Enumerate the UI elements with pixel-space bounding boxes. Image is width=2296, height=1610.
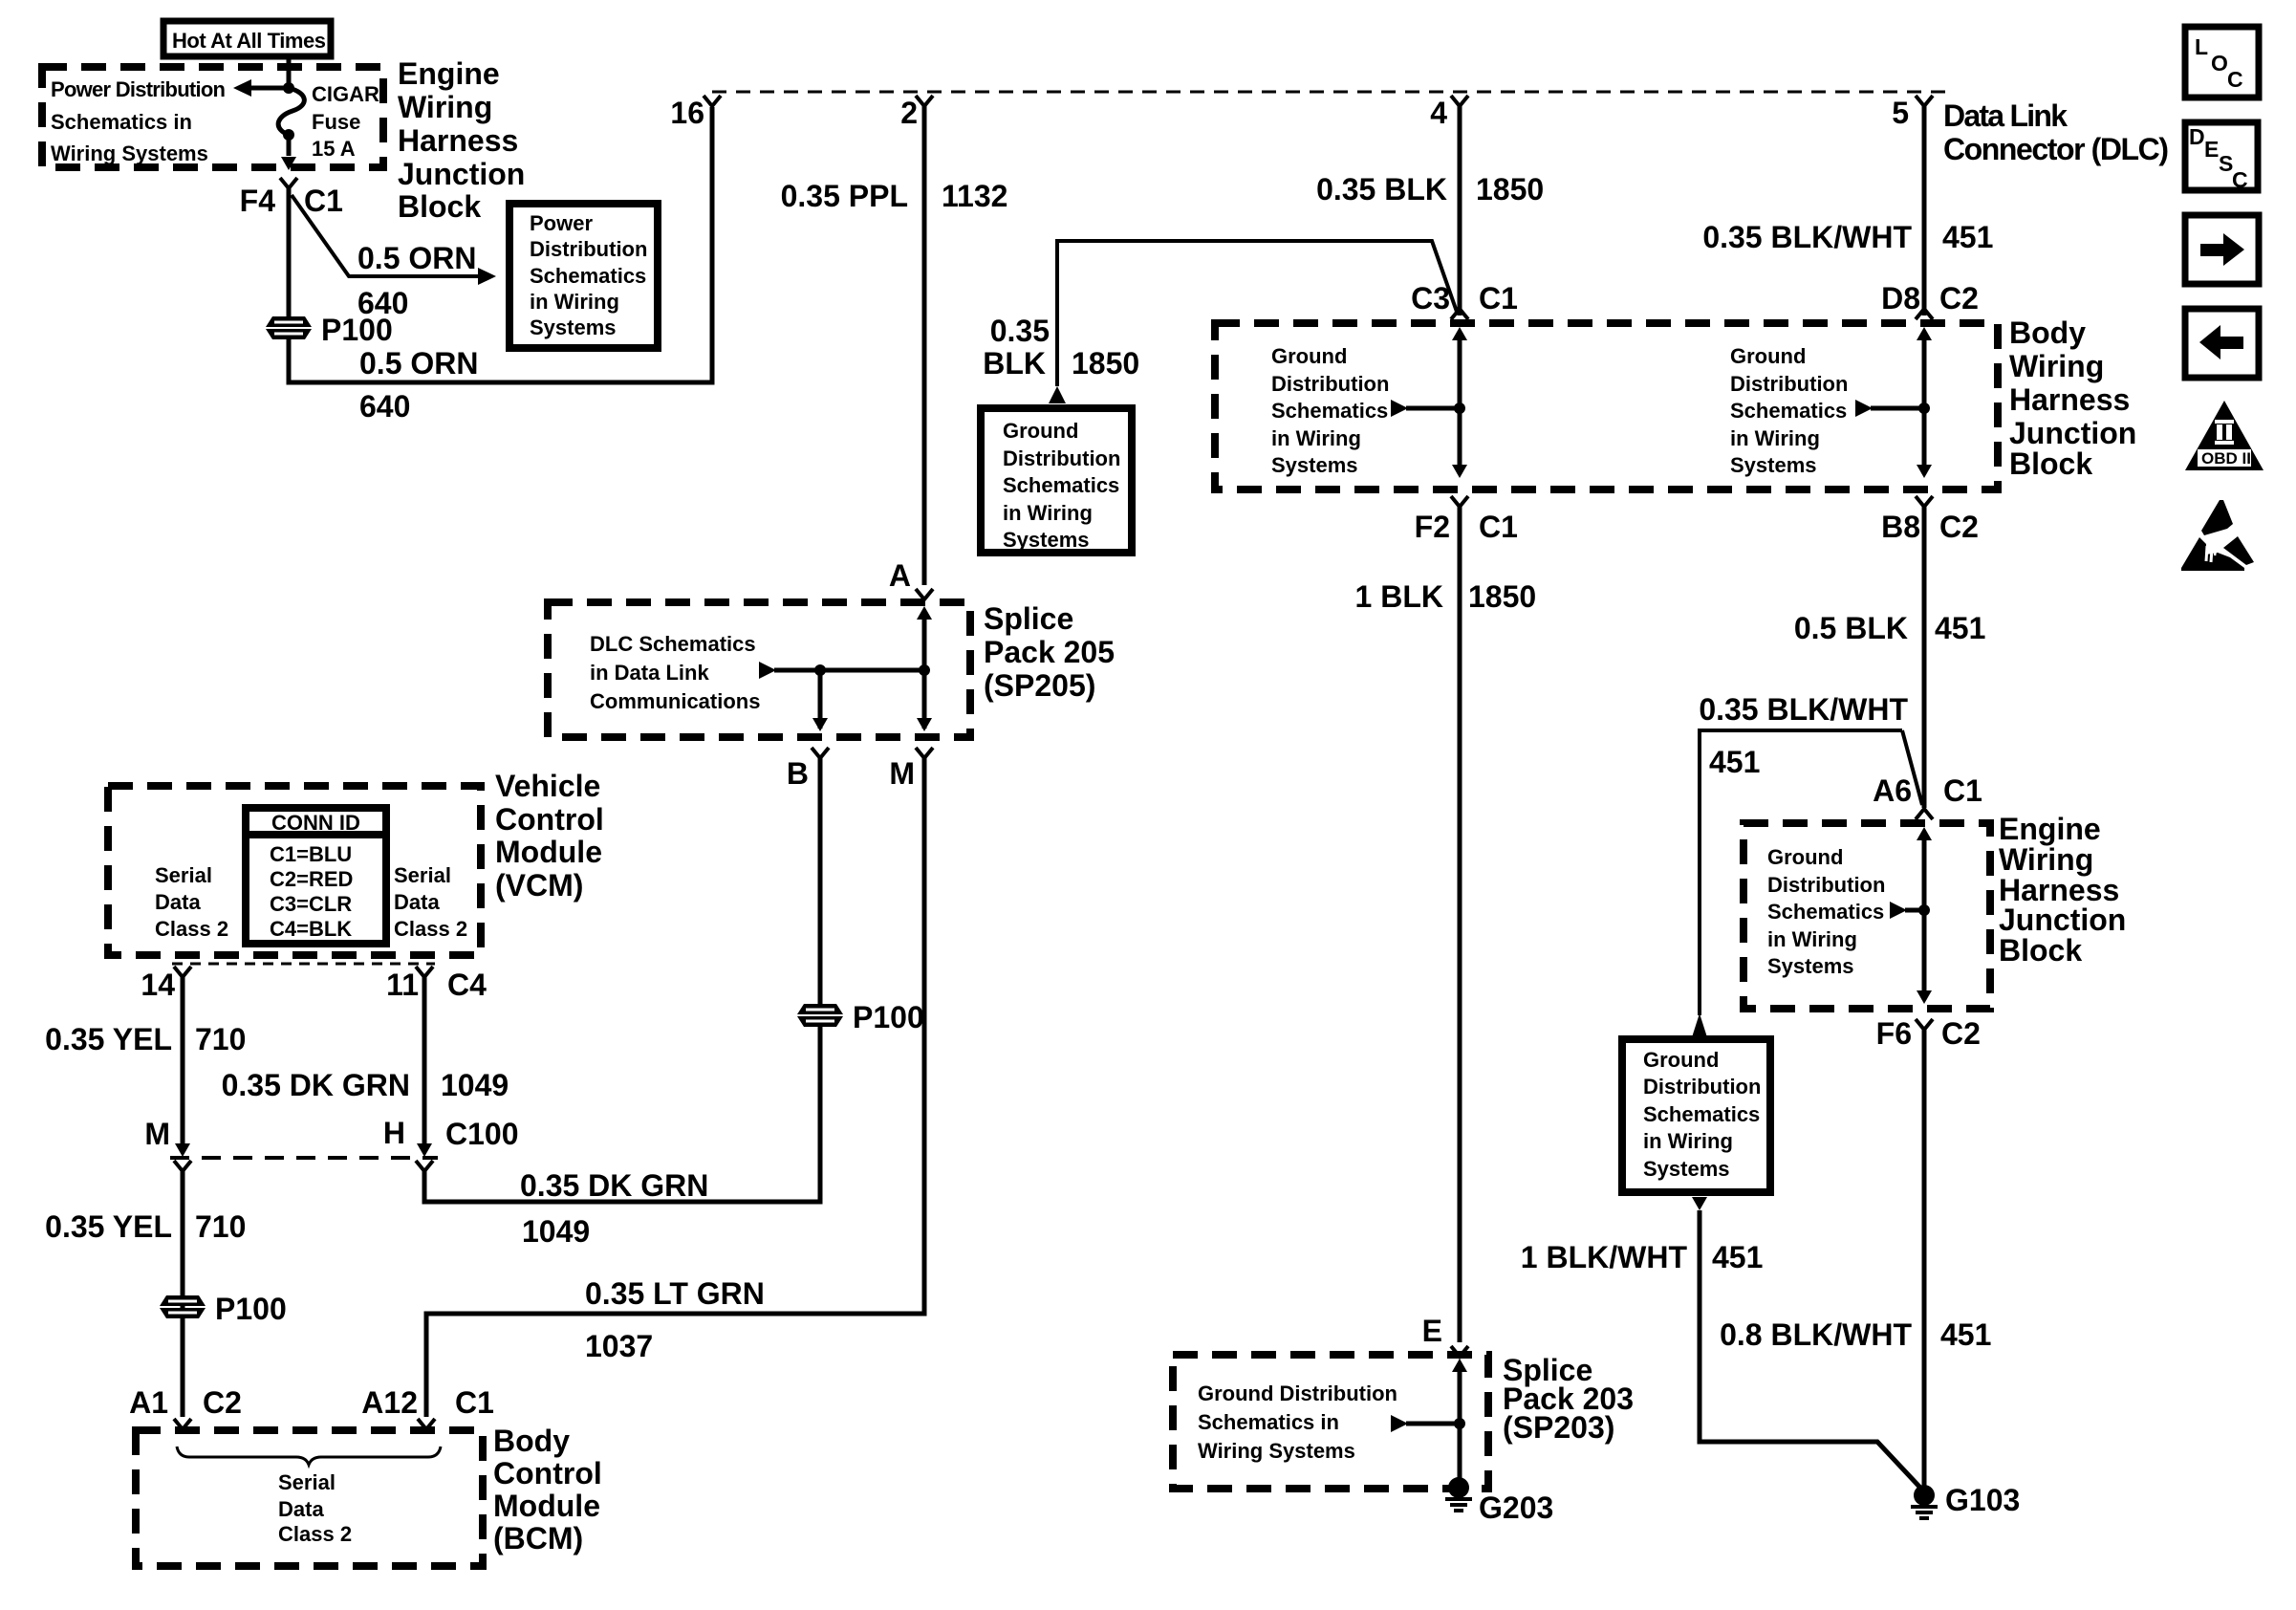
wire from Hot box to fuse: [287, 56, 292, 88]
svg-text:Data: Data: [394, 890, 440, 914]
svg-text:Vehicle: Vehicle: [495, 769, 600, 803]
svg-text:1850: 1850: [1072, 346, 1139, 381]
svg-text:Systems: Systems: [1003, 528, 1090, 552]
svg-text:451: 451: [1709, 745, 1760, 779]
svg-text:Wiring: Wiring: [1999, 842, 2093, 877]
svg-text:Serial: Serial: [394, 863, 451, 887]
svg-text:Splice: Splice: [984, 601, 1073, 636]
label Ground Distribution Schematics in Wiring Systems (engine box): [1767, 845, 1885, 978]
label 0.35 DK GRN 1049 (lower): [520, 1168, 708, 1249]
dashed box Vehicle Control Module: [108, 786, 481, 955]
wire 0.35 BLK/WHT 451 pin 5 down to D8: [1922, 106, 1927, 315]
wire 0.35 PPL 1132 from pin 2 to SP205 A: [922, 106, 927, 585]
connector P100 (middle, on B wire): [797, 1000, 924, 1034]
svg-text:M: M: [144, 1117, 170, 1151]
box Hot At All Times: [163, 21, 331, 56]
svg-text:C2=RED: C2=RED: [270, 867, 353, 891]
wire reference arrow SP203: [1391, 1415, 1465, 1432]
svg-text:Data: Data: [155, 890, 201, 914]
label Splice Pack 203 (SP203): [1503, 1353, 1634, 1445]
svg-text:Harness: Harness: [2009, 382, 2130, 417]
connector tick D8 C2: [1881, 281, 1979, 319]
svg-text:Distribution: Distribution: [1003, 446, 1120, 470]
svg-text:Serial: Serial: [155, 863, 212, 887]
svg-text:Distribution: Distribution: [1271, 372, 1389, 396]
svg-text:Distribution: Distribution: [530, 237, 647, 261]
svg-text:Class 2: Class 2: [394, 917, 467, 941]
icon back arrow box: [2185, 309, 2259, 378]
svg-text:Ground: Ground: [1271, 344, 1347, 368]
svg-text:C100: C100: [445, 1117, 519, 1151]
label Serial Data Class 2 (right): [394, 863, 467, 941]
wire arrow to power distribution (left): [233, 79, 289, 97]
wire reference arrow engine box: [1890, 902, 1930, 919]
connector tick F2 C1: [1415, 496, 1518, 544]
connector tick A1 C2 at BCM: [129, 1385, 242, 1429]
icon LOC box: [2185, 27, 2259, 98]
svg-text:14: 14: [141, 968, 175, 1002]
dashed box Engine Wiring Harness Junction Block (right): [1744, 823, 1990, 1009]
label 0.5 BLK 451: [1794, 611, 1986, 645]
ground G103: [1911, 1483, 2020, 1518]
svg-text:451: 451: [1712, 1240, 1763, 1274]
wire B leg from P100 down to DK GRN corner: [425, 1027, 820, 1202]
wire diagonal branch 0.5 ORN to power distribution box: [292, 195, 496, 285]
svg-text:Pack 205: Pack 205: [984, 635, 1115, 669]
svg-text:0.5 BLK: 0.5 BLK: [1794, 611, 1908, 645]
connector tick A6 C1: [1873, 773, 1982, 819]
wire 0.35 DK GRN 1049 from C100 right to SP205 B leg: [424, 1171, 820, 1202]
label Serial Data Class 2 (BCM): [278, 1470, 352, 1546]
svg-text:451: 451: [1935, 611, 1985, 645]
label Body Wiring Harness Junction Block: [2009, 315, 2136, 481]
svg-text:Schematics: Schematics: [1003, 473, 1119, 497]
svg-text:CIGAR: CIGAR: [312, 82, 379, 106]
svg-text:C2: C2: [1941, 1016, 1981, 1051]
box Ground Distribution Schematics in Wiring Systems (solid, upper): [981, 408, 1132, 553]
svg-text:Systems: Systems: [530, 315, 617, 339]
svg-text:D: D: [2189, 124, 2205, 149]
svg-text:4: 4: [1430, 96, 1447, 130]
svg-text:Distribution: Distribution: [1730, 372, 1848, 396]
label Ground Distribution Schematics in Wiring Systems (body box, right): [1730, 344, 1848, 477]
svg-text:0.35 LT GRN: 0.35 LT GRN: [585, 1276, 765, 1311]
svg-text:Engine: Engine: [398, 56, 500, 91]
box Ground Distribution Schematics in Wiring Systems (solid, lower): [1622, 1039, 1770, 1192]
brace serial data bus: [177, 1447, 441, 1465]
svg-text:Module: Module: [493, 1489, 600, 1523]
label 0.35 BLK 1850 (pin 4): [1316, 172, 1544, 207]
svg-text:Ground: Ground: [1643, 1048, 1719, 1072]
svg-text:C1: C1: [304, 184, 343, 218]
svg-text:Data: Data: [278, 1497, 324, 1521]
svg-text:Ground: Ground: [1730, 344, 1806, 368]
svg-text:C1: C1: [1479, 281, 1518, 315]
label 0.35 PPL 1132: [781, 179, 1008, 213]
svg-text:Schematics: Schematics: [1767, 900, 1884, 924]
svg-text:0.35 BLK/WHT: 0.35 BLK/WHT: [1702, 220, 1912, 254]
svg-text:710: 710: [195, 1209, 246, 1244]
svg-text:Schematics: Schematics: [1271, 399, 1388, 423]
wire SP205 internal reference line with arrow: [759, 662, 924, 679]
svg-text:C3=CLR: C3=CLR: [270, 892, 352, 916]
icon forward arrow box: [2185, 215, 2259, 284]
node A: [889, 558, 933, 599]
dashed box Power Distribution Schematics in Wiring Systems: [42, 67, 383, 167]
svg-text:CONN ID: CONN ID: [271, 811, 360, 835]
svg-text:0.35 PPL: 0.35 PPL: [781, 179, 908, 213]
svg-text:Wiring: Wiring: [2009, 349, 2104, 383]
wire B leg down to P100: [818, 758, 823, 1004]
connector tick pin 4: [1430, 96, 1468, 130]
svg-text:E: E: [2204, 137, 2219, 162]
svg-text:F6: F6: [1876, 1016, 1912, 1051]
wire body box internal (right leg): [1917, 327, 1932, 478]
label 0.8 BLK/WHT 451: [1720, 1317, 1991, 1352]
label 1 BLK/WHT 451: [1521, 1240, 1764, 1274]
svg-text:710: 710: [195, 1022, 246, 1056]
svg-text:C2: C2: [1939, 281, 1979, 315]
label 0.35 YEL 710 (lower): [45, 1209, 246, 1244]
svg-text:in Wiring: in Wiring: [530, 290, 619, 314]
svg-text:Control: Control: [493, 1456, 602, 1490]
wire fuse down to connector F4: [281, 135, 296, 170]
label 0.5 ORN 640 (lower): [359, 346, 478, 424]
svg-text:Serial: Serial: [278, 1470, 336, 1494]
svg-text:Class 2: Class 2: [155, 917, 228, 941]
wire 0.35 DK GRN 1049 pin 11 down to C100: [417, 977, 432, 1157]
connector tick pin 14: [141, 967, 191, 1002]
label Ground Distribution Schematics in Wiring Systems (body box, left): [1271, 344, 1389, 477]
svg-text:0.35 BLK/WHT: 0.35 BLK/WHT: [1699, 692, 1908, 727]
svg-text:E: E: [1422, 1314, 1442, 1348]
svg-text:1 BLK: 1 BLK: [1355, 579, 1443, 614]
svg-text:Schematics: Schematics: [1730, 399, 1847, 423]
svg-text:C4=BLK: C4=BLK: [270, 917, 352, 941]
svg-text:C1: C1: [455, 1385, 494, 1420]
svg-text:C2: C2: [1939, 510, 1979, 544]
svg-text:Power: Power: [530, 211, 593, 235]
wire reference arrow right: [1855, 400, 1930, 417]
svg-text:Distribution: Distribution: [1767, 873, 1885, 897]
svg-text:B8: B8: [1881, 510, 1920, 544]
svg-text:451: 451: [1940, 1317, 1991, 1352]
wire body box internal (left leg): [1452, 327, 1467, 478]
svg-text:Wiring Systems: Wiring Systems: [1198, 1439, 1355, 1463]
connector tick B8 C2: [1881, 496, 1979, 544]
label Engine Wiring Harness Junction Block (top-left): [398, 56, 525, 224]
svg-text:Block: Block: [1999, 933, 2082, 968]
svg-text:0.35: 0.35: [990, 314, 1050, 348]
svg-text:(VCM): (VCM): [495, 868, 583, 903]
label 0.35 LT GRN 1037: [585, 1276, 765, 1363]
svg-text:Harness: Harness: [398, 123, 518, 158]
svg-text:Body: Body: [2009, 315, 2086, 350]
label 0.35 BLK 1850 (branch): [983, 314, 1139, 381]
wire 0.35 YEL 710 from C100 down through P100 to BCM A1: [181, 1171, 185, 1417]
svg-text:11: 11: [386, 968, 419, 1002]
dashed box Splice Pack 203: [1173, 1355, 1488, 1489]
svg-text:L: L: [2195, 34, 2208, 59]
svg-text:C1: C1: [1479, 510, 1518, 544]
svg-text:Junction: Junction: [2009, 416, 2136, 450]
svg-text:F4: F4: [240, 184, 276, 218]
fuse CIGAR 15 A: [278, 82, 379, 161]
svg-text:Ground Distribution: Ground Distribution: [1198, 1382, 1397, 1405]
svg-text:Fuse: Fuse: [312, 110, 360, 134]
svg-text:OBD II: OBD II: [2201, 449, 2251, 468]
connector P100 (top, on orange wire): [266, 313, 393, 347]
svg-text:Schematics: Schematics: [530, 264, 646, 288]
node junction dot on M leg: [919, 664, 930, 676]
svg-text:in Wiring: in Wiring: [1271, 426, 1361, 450]
svg-text:0.5 ORN: 0.5 ORN: [359, 346, 478, 381]
svg-text:G103: G103: [1945, 1483, 2020, 1517]
wire 0.35 YEL 710 pin 14 down to C100: [175, 977, 190, 1157]
label 0.35 YEL 710 (upper): [45, 1022, 246, 1056]
svg-text:1132: 1132: [942, 179, 1007, 213]
wire arrow into ground box: [1049, 386, 1066, 403]
connector tick pin 16: [670, 96, 721, 130]
connector tick M below SP205: [889, 748, 933, 791]
svg-text:Block: Block: [398, 189, 481, 224]
svg-text:A12: A12: [361, 1385, 418, 1420]
label 0.5 ORN 640 (upper): [357, 241, 476, 320]
dashed box Splice Pack 205: [548, 602, 970, 737]
svg-text:5: 5: [1892, 96, 1909, 130]
svg-text:C3: C3: [1411, 281, 1450, 315]
svg-text:Ground: Ground: [1003, 419, 1078, 443]
label 0.35 DK GRN 1049 (upper): [222, 1068, 509, 1102]
connector tick pin 11 / C4: [386, 967, 487, 1002]
svg-text:DLC Schematics: DLC Schematics: [590, 632, 756, 656]
connector tick pin 5: [1892, 96, 1933, 130]
wire dashed connector C4 line under VCM: [172, 963, 435, 966]
connector tick F6 C2: [1876, 1016, 1981, 1051]
svg-text:Control: Control: [495, 802, 604, 837]
svg-text:0.35 BLK: 0.35 BLK: [1316, 172, 1447, 207]
svg-text:C1=BLU: C1=BLU: [270, 842, 352, 866]
svg-text:(SP205): (SP205): [984, 668, 1095, 703]
svg-text:1049: 1049: [441, 1068, 509, 1102]
svg-text:1037: 1037: [585, 1329, 653, 1363]
svg-text:P100: P100: [215, 1292, 287, 1326]
svg-text:C4: C4: [447, 968, 487, 1002]
svg-text:0.35 DK GRN: 0.35 DK GRN: [222, 1068, 410, 1102]
label Splice Pack 205 (SP205): [984, 601, 1115, 703]
dashed box Body Wiring Harness Junction Block: [1215, 323, 1998, 490]
connector tick H at C100: [383, 1116, 519, 1171]
svg-text:F2: F2: [1415, 510, 1450, 544]
svg-text:in Wiring: in Wiring: [1767, 927, 1857, 951]
label DLC Schematics in Data Link Communications: [590, 632, 760, 713]
svg-text:1 BLK/WHT: 1 BLK/WHT: [1521, 1240, 1688, 1274]
label 0.35 BLK/WHT 451 (pin 5): [1702, 220, 1993, 254]
svg-text:Systems: Systems: [1767, 954, 1854, 978]
wire SP203 internal with arrow: [1452, 1359, 1467, 1480]
svg-text:O: O: [2211, 51, 2228, 76]
label Data Link Connector (DLC): [1943, 98, 2169, 166]
node E: [1422, 1314, 1468, 1357]
svg-text:Systems: Systems: [1643, 1157, 1730, 1181]
svg-text:Schematics in: Schematics in: [51, 110, 192, 134]
wire reference arrow left: [1391, 400, 1465, 417]
svg-text:640: 640: [359, 389, 410, 424]
svg-text:1850: 1850: [1468, 579, 1536, 614]
svg-text:16: 16: [670, 96, 704, 130]
wire branch 0.35 BLK/WHT 451 to ground solid box: [1700, 730, 1902, 1015]
svg-text:A1: A1: [129, 1385, 168, 1420]
svg-text:0.35 DK GRN: 0.35 DK GRN: [520, 1168, 708, 1203]
wire M leg down to LT GRN corner: [426, 758, 924, 1417]
svg-text:M: M: [889, 756, 915, 791]
svg-text:15 A: 15 A: [312, 137, 356, 161]
svg-text:(BCM): (BCM): [493, 1521, 583, 1556]
svg-text:Systems: Systems: [1271, 453, 1358, 477]
wire 0.35 BLK 1850 pin 4 down to C3: [1458, 106, 1462, 315]
svg-text:Body: Body: [493, 1424, 570, 1458]
svg-text:C: C: [2232, 167, 2248, 192]
svg-text:(SP203): (SP203): [1503, 1410, 1614, 1445]
svg-text:Communications: Communications: [590, 689, 760, 713]
svg-text:0.8 BLK/WHT: 0.8 BLK/WHT: [1720, 1317, 1912, 1352]
svg-text:H: H: [383, 1116, 405, 1150]
connector tick pin 2: [900, 96, 933, 130]
svg-text:2: 2: [900, 96, 918, 130]
svg-text:Systems: Systems: [1730, 453, 1817, 477]
label Engine Wiring Harness Junction Block (right): [1999, 812, 2126, 968]
wire SP205 internal arrow up (M leg): [917, 606, 932, 731]
connector P100 (left, on yellow wire): [160, 1292, 287, 1326]
label Body Control Module (BCM): [493, 1424, 602, 1556]
svg-text:BLK: BLK: [983, 346, 1046, 381]
svg-text:0.5 ORN: 0.5 ORN: [357, 241, 476, 275]
connector tick F4 C1: [240, 178, 343, 218]
svg-text:Hot At All Times: Hot At All Times: [172, 29, 326, 53]
wire 0.5 BLK 451 down to A6: [1922, 507, 1927, 808]
wire SP205 internal B leg down arrow: [812, 670, 828, 731]
svg-text:640: 640: [357, 286, 408, 320]
svg-text:A6: A6: [1873, 773, 1912, 808]
svg-text:451: 451: [1942, 220, 1993, 254]
svg-text:Power Distribution: Power Distribution: [51, 77, 226, 101]
svg-text:Junction: Junction: [398, 157, 525, 191]
svg-text:in Data Link: in Data Link: [590, 661, 709, 685]
wire F4 down through P100 to bottom corner: [287, 188, 292, 316]
node junction dot top of fuse: [283, 82, 294, 94]
wire 0.8 BLK/WHT 451 down to G103: [1922, 1030, 1927, 1486]
svg-text:B: B: [787, 756, 809, 791]
wire dashed connector C100 line: [170, 1156, 438, 1160]
connector tick A12 C1 at BCM: [361, 1385, 494, 1429]
wire P100 down, right, and up to DLC pin 16: [289, 107, 712, 382]
svg-text:Data Link: Data Link: [1943, 98, 2068, 133]
svg-text:in Wiring: in Wiring: [1730, 426, 1820, 450]
svg-text:in Wiring: in Wiring: [1643, 1129, 1733, 1153]
svg-text:Engine: Engine: [1999, 812, 2101, 846]
svg-text:A: A: [889, 558, 911, 593]
table CONN ID: [246, 808, 386, 944]
icon OBD II triangle: [2185, 401, 2264, 470]
svg-text:Class 2: Class 2: [278, 1522, 352, 1546]
wire 1 BLK/WHT 451 from box down to G103: [1692, 1197, 1920, 1488]
svg-text:Connector (DLC): Connector (DLC): [1943, 132, 2169, 166]
svg-text:Junction: Junction: [1999, 903, 2126, 937]
wire 1 BLK 1850 down to SP203 E: [1458, 507, 1462, 1342]
ground G203: [1445, 1477, 1553, 1525]
svg-text:Module: Module: [495, 835, 602, 869]
svg-text:Schematics: Schematics: [1643, 1102, 1760, 1126]
wire engine box internal leg: [1917, 827, 1932, 1004]
label 0.35 BLK/WHT 451 (branch): [1699, 692, 1908, 779]
connector tick M at C100: [144, 1117, 191, 1171]
dashed box Body Control Module: [136, 1430, 483, 1566]
svg-text:0.35 YEL: 0.35 YEL: [45, 1209, 172, 1244]
connector tick B below SP205: [787, 748, 829, 791]
svg-text:C: C: [2227, 67, 2243, 92]
label Ground Distribution Schematics in Wiring Systems (SP203): [1198, 1382, 1397, 1463]
wire dashed DLC outline (top): [712, 91, 1950, 94]
connector tick C3 C1: [1411, 281, 1518, 319]
wire branch 0.35 BLK to ground distribution box: [1057, 241, 1457, 386]
svg-text:Schematics in: Schematics in: [1198, 1410, 1339, 1434]
label 1 BLK 1850: [1355, 579, 1537, 614]
node junction dot on B leg: [814, 664, 826, 676]
svg-text:C1: C1: [1943, 773, 1982, 808]
svg-text:in Wiring: in Wiring: [1003, 501, 1093, 525]
svg-text:G203: G203: [1479, 1490, 1553, 1525]
svg-text:0.35 YEL: 0.35 YEL: [45, 1022, 172, 1056]
svg-text:1850: 1850: [1476, 172, 1544, 207]
svg-text:Block: Block: [2009, 446, 2092, 481]
svg-text:1049: 1049: [522, 1214, 590, 1249]
svg-text:Wiring Systems: Wiring Systems: [51, 141, 208, 165]
box Power Distribution Schematics in Wiring Systems (solid): [509, 204, 658, 348]
label Serial Data Class 2 (left): [155, 863, 228, 941]
svg-text:C2: C2: [203, 1385, 242, 1420]
svg-text:D8: D8: [1881, 281, 1920, 315]
label Vehicle Control Module (VCM): [495, 769, 604, 903]
svg-text:P100: P100: [853, 1000, 924, 1034]
svg-text:Wiring: Wiring: [398, 90, 492, 124]
svg-text:Distribution: Distribution: [1643, 1075, 1761, 1099]
icon DESC box: [2185, 122, 2258, 192]
svg-text:Ground: Ground: [1767, 845, 1843, 869]
icon ESD warning: [2181, 500, 2254, 571]
